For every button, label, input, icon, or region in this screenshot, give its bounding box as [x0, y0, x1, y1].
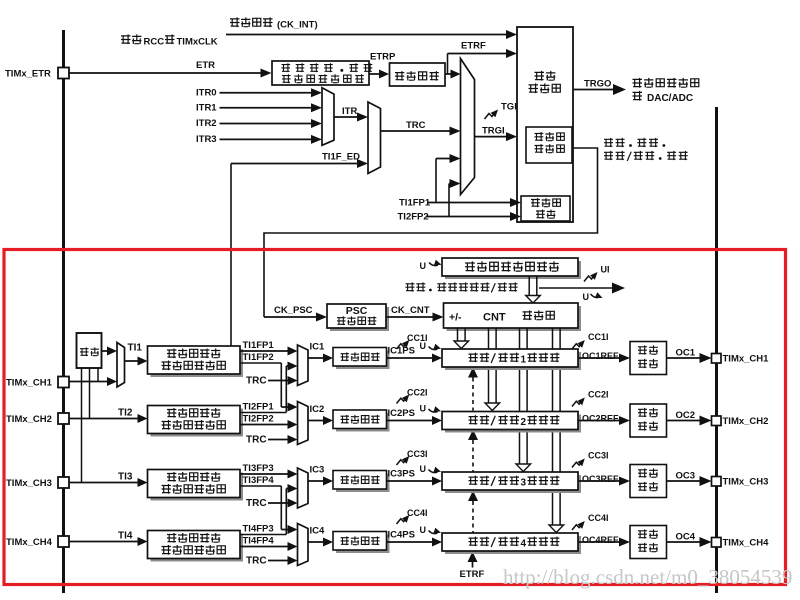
- wire left input rail: [62, 30, 65, 593]
- svg-text:ITR1: ITR1: [196, 103, 217, 114]
- svg-text:TIMx_ETR: TIMx_ETR: [5, 69, 51, 80]
- wire XOR tap to CH2: [89, 368, 91, 419]
- svg-text:CC3I: CC3I: [588, 451, 609, 461]
- svg-text:CC4I: CC4I: [407, 508, 428, 518]
- svg-text:IC3PS: IC3PS: [388, 469, 415, 480]
- block auto-reload register: [445, 261, 581, 279]
- svg-text:CC3I: CC3I: [407, 449, 428, 459]
- svg-text:IC1: IC1: [310, 342, 326, 353]
- svg-text:ITR3: ITR3: [196, 134, 217, 145]
- block capture compare register 3: [445, 475, 581, 493]
- pin TIMx_CH4 left: [58, 536, 69, 547]
- pin TIMx_CH3 right: [712, 477, 722, 487]
- mux TI1 select: [117, 343, 125, 388]
- svg-text:U: U: [420, 341, 427, 351]
- svg-text:TRC: TRC: [246, 556, 267, 567]
- wire filter to trigger mux: [446, 73, 453, 75]
- svg-text:TI1FP2: TI1FP2: [243, 352, 274, 363]
- svg-text:1: 1: [520, 355, 526, 366]
- label stop clear up/down: [406, 282, 415, 291]
- label to other timers to DAC/ADC: [633, 78, 699, 88]
- svg-text:2: 2: [520, 417, 526, 428]
- svg-text:TIMx_CH2: TIMx_CH2: [723, 416, 769, 427]
- block capture compare register 2: [445, 415, 581, 433]
- svg-text:OC4: OC4: [676, 532, 696, 543]
- pin TIMx_CH2 right: [712, 416, 722, 426]
- svg-text:CC4I: CC4I: [588, 513, 609, 523]
- wire right output rail: [715, 107, 718, 593]
- svg-text:TI3: TI3: [118, 472, 133, 483]
- block prescaler IC1: [336, 351, 390, 370]
- mux TRC select: [368, 102, 381, 174]
- mux IC1 select: [298, 345, 309, 386]
- block input filter edge detector 3: [151, 473, 244, 501]
- block input filter edge detector 2: [151, 409, 244, 437]
- label reset enable up/down count: [604, 138, 613, 147]
- block slave mode controller: [526, 127, 572, 163]
- svg-text:ETR: ETR: [196, 60, 215, 71]
- svg-text:U: U: [420, 525, 427, 535]
- bus CNT to capture 2: [488, 329, 490, 404]
- svg-text:RCC: RCC: [144, 37, 165, 48]
- svg-text:U: U: [420, 404, 427, 414]
- pin TIMx_CH1 left: [58, 377, 69, 388]
- block output control 1: [630, 342, 667, 375]
- svg-text:TIMxCLK: TIMxCLK: [177, 37, 218, 48]
- pin TIMx_CH1 right: [712, 354, 722, 364]
- svg-text:CNT: CNT: [483, 312, 506, 324]
- svg-text:TIMx_CH2: TIMx_CH2: [6, 414, 52, 425]
- svg-text:ITR: ITR: [342, 106, 357, 117]
- dashed capture chain 1: [468, 367, 478, 378]
- mux ITR select: [322, 88, 334, 146]
- svg-text:TIMx_CH4: TIMx_CH4: [723, 538, 770, 549]
- svg-text:TRC: TRC: [246, 435, 267, 446]
- svg-text:IC2: IC2: [310, 404, 325, 415]
- block CNT counter: [447, 306, 582, 331]
- svg-text:CC1I: CC1I: [588, 332, 609, 342]
- block input filter edge detector 1: [151, 349, 244, 377]
- svg-text:CK_CNT: CK_CNT: [391, 305, 430, 316]
- svg-text:TRC: TRC: [406, 120, 426, 131]
- block prescaler IC2: [336, 413, 390, 432]
- bus CNT to capture 4: [552, 329, 554, 526]
- svg-text:U: U: [583, 292, 590, 302]
- wire update event arrow: [539, 287, 613, 289]
- pin TIMx_CH4 right: [712, 538, 722, 548]
- svg-text:TI3FP4: TI3FP4: [243, 475, 275, 486]
- pin TIMx_ETR: [58, 68, 69, 79]
- svg-text:4: 4: [520, 539, 526, 550]
- svg-text:TI1FP1: TI1FP1: [243, 340, 275, 351]
- svg-text:TRC: TRC: [246, 376, 267, 387]
- wire ETRF into capture 4: [468, 552, 478, 563]
- svg-text:PSC: PSC: [346, 305, 368, 317]
- svg-text:TIMx_CH1: TIMx_CH1: [6, 378, 53, 389]
- block encoder interface: [521, 196, 570, 221]
- bus CNT to capture 3: [519, 329, 521, 465]
- svg-text:IC4: IC4: [310, 526, 326, 537]
- block polarity-select edge-detect prescaler: [272, 61, 369, 85]
- svg-text:UI: UI: [601, 265, 610, 275]
- wire TI1FP1 riser to trigger mux: [435, 159, 437, 203]
- svg-text:TI1FP1: TI1FP1: [399, 198, 431, 209]
- block prescaler IC3: [336, 474, 390, 493]
- block trigger controller U1: [517, 27, 573, 222]
- svg-text:TI4FP4: TI4FP4: [243, 536, 275, 547]
- svg-text:TI1F_ED: TI1F_ED: [322, 152, 360, 163]
- block output control 2: [630, 404, 667, 437]
- wire CK_INT to trigger controller: [226, 34, 508, 36]
- block input filter ETR: [390, 63, 446, 86]
- svg-text:CC2I: CC2I: [407, 388, 428, 398]
- svg-text:U: U: [420, 464, 427, 474]
- pin TIMx_CH2 left: [58, 413, 69, 424]
- svg-text:IC1PS: IC1PS: [388, 346, 415, 357]
- svg-text:OC3REF: OC3REF: [582, 474, 619, 484]
- svg-text:OC3: OC3: [676, 471, 696, 482]
- wire XOR output to TI1 mux: [102, 350, 110, 352]
- block input filter edge detector 4: [151, 534, 244, 562]
- svg-text:http://blog.csdn.net/m0_380545: http://blog.csdn.net/m0_38054539: [503, 565, 792, 589]
- svg-text:TIMx_CH3: TIMx_CH3: [723, 477, 769, 488]
- svg-text:ETRF: ETRF: [461, 41, 486, 52]
- svg-text:TI2: TI2: [118, 408, 133, 419]
- svg-text:ITR2: ITR2: [196, 118, 217, 129]
- svg-text:TIMx_CH3: TIMx_CH3: [6, 478, 52, 489]
- svg-text:TGI: TGI: [501, 102, 517, 113]
- svg-text:TI4FP3: TI4FP3: [243, 524, 274, 535]
- block capture compare register 4: [445, 536, 581, 554]
- dashed capture chain 3: [468, 491, 478, 502]
- svg-text:ETRF: ETRF: [460, 569, 485, 580]
- svg-text:TRC: TRC: [246, 498, 267, 509]
- wire slave controller loop to CK_PSC: [264, 148, 598, 317]
- pin TIMx_CH3 left: [58, 477, 69, 488]
- svg-text:TIMx_CH1: TIMx_CH1: [723, 354, 770, 365]
- svg-text:IC2PS: IC2PS: [388, 408, 415, 419]
- svg-text:IC4PS: IC4PS: [388, 530, 415, 541]
- mux IC3 select: [298, 468, 309, 508]
- svg-text:OC2REF: OC2REF: [582, 414, 619, 424]
- svg-text:OC1REF: OC1REF: [582, 351, 619, 361]
- svg-text:U: U: [420, 261, 427, 271]
- mux IC4 select: [298, 524, 309, 566]
- wire CH1 to TI1 mux: [70, 381, 110, 383]
- dashed capture chain 2: [468, 430, 478, 441]
- svg-text:TI3FP3: TI3FP3: [243, 463, 274, 474]
- svg-text:TI2FP1: TI2FP1: [243, 402, 275, 413]
- svg-text:ETRP: ETRP: [370, 52, 396, 63]
- wire XOR tap to CH3: [81, 368, 83, 483]
- svg-text:TI2FP2: TI2FP2: [243, 414, 274, 425]
- block PSC prescaler: [330, 307, 389, 331]
- svg-text:3: 3: [520, 478, 526, 489]
- svg-text:OC2: OC2: [676, 410, 696, 421]
- svg-text:ITR0: ITR0: [196, 88, 217, 99]
- wire TI2FP2 riser to trigger mux: [448, 184, 450, 217]
- wire XOR tap to CH1: [97, 368, 99, 382]
- label internal clock CK_INT: [230, 17, 273, 27]
- svg-text:OC4REF: OC4REF: [582, 535, 619, 545]
- svg-text:TI1: TI1: [128, 343, 143, 354]
- svg-text:DAC/ADC: DAC/ADC: [647, 93, 693, 104]
- svg-text:(CK_INT): (CK_INT): [277, 20, 318, 31]
- svg-text:TI2FP2: TI2FP2: [398, 212, 429, 223]
- block prescaler IC4: [336, 535, 390, 554]
- block capture compare register 1: [445, 352, 581, 370]
- svg-text:TIMx_CH4: TIMx_CH4: [6, 537, 53, 548]
- svg-text:TRGO: TRGO: [584, 79, 611, 90]
- svg-text:TRGI: TRGI: [482, 126, 505, 137]
- svg-text:CK_PSC: CK_PSC: [274, 305, 313, 316]
- block XOR gate: [77, 333, 102, 368]
- block output control 4: [630, 526, 667, 559]
- svg-text:+/-: +/-: [449, 312, 462, 324]
- label from RCC TIMxCLK: [121, 34, 141, 44]
- bus CNT to capture 1: [457, 329, 459, 342]
- mux IC2 select: [298, 402, 309, 445]
- svg-text:OC1: OC1: [676, 348, 696, 359]
- arrow auto-reload to counter: [528, 277, 530, 296]
- svg-text:CC2I: CC2I: [588, 390, 609, 400]
- svg-text:IC3: IC3: [310, 465, 325, 476]
- svg-text:TI4: TI4: [118, 531, 133, 542]
- red highlight rectangle: [4, 250, 786, 585]
- mux trigger input select: [461, 59, 475, 195]
- block output control 3: [630, 465, 667, 498]
